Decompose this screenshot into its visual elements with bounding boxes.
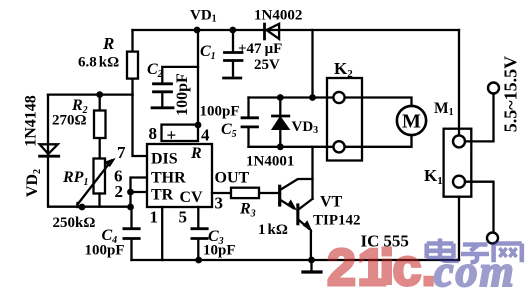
svg-text:100pF: 100pF	[174, 73, 191, 116]
svg-text:5: 5	[179, 208, 188, 227]
relay K2 box	[327, 78, 362, 161]
wire pin7 DIS from R/R2 node down into IC	[133, 95, 148, 156]
node emitter rail dot	[308, 257, 315, 264]
wire K1 box bottom to ground rail	[458, 197, 460, 260]
node THR TR bottom dot	[127, 204, 134, 211]
capacitor C4 100pF	[124, 207, 139, 260]
relay K2 bottom contact circle	[333, 141, 344, 152]
capacitor C5 100pF	[242, 98, 258, 147]
svg-text:R: R	[102, 34, 114, 53]
svg-text:M: M	[402, 111, 421, 133]
wire K1 top contact to supply terminal	[465, 94, 494, 142]
svg-text:1N4002: 1N4002	[254, 8, 302, 24]
wire relay top net	[249, 98, 412, 107]
svg-text:10pF: 10pF	[203, 243, 236, 259]
svg-text:8: 8	[149, 124, 158, 143]
resistor R2 270ohm with leads	[94, 95, 106, 159]
wire K1 bottom contact to supply terminal bottom	[465, 182, 494, 233]
resistor R3 1k	[231, 188, 259, 198]
wire pin4 reset to VD1 rail	[197, 30, 199, 125]
supply terminal top circle	[488, 83, 499, 94]
svg-text:3: 3	[215, 194, 224, 213]
svg-text:+47μF: +47μF	[238, 41, 282, 57]
wire top rail corner down to K1	[458, 30, 460, 135]
svg-text:1N4148: 1N4148	[23, 95, 40, 147]
IC 555 plus box pin 8	[162, 125, 199, 141]
wire relay bottom net	[249, 135, 412, 147]
diode VD2 1N4148	[40, 144, 59, 156]
diode VD3 1N4001	[273, 98, 289, 147]
capacitor C2 100pF	[152, 67, 198, 108]
svg-text:c.: c.	[393, 239, 436, 288]
relay K2 top contact circle	[333, 92, 344, 103]
wire left branch from R bottom to VD2 top corner	[48, 93, 133, 95]
svg-text:+: +	[167, 126, 177, 145]
wire top rail VD1 net	[133, 29, 460, 31]
svg-text:1: 1	[150, 208, 159, 227]
wire collector drop from relay bottom net	[311, 147, 313, 199]
svg-text:100pF: 100pF	[200, 104, 240, 120]
resistor R vertical with leads	[127, 30, 138, 95]
motor M1 circle	[397, 106, 426, 135]
wire OUT pin3 to R3 to base	[212, 192, 278, 194]
potentiometer RP1 250k body	[94, 159, 106, 207]
node VD3 bottom dot	[277, 143, 284, 150]
svg-text:DIS: DIS	[151, 151, 178, 168]
svg-text:250kΩ: 250kΩ	[53, 215, 96, 231]
svg-text:THR: THR	[151, 170, 186, 187]
watermark dianziwang blue glyphs	[427, 239, 522, 263]
svg-text:25V: 25V	[254, 57, 280, 73]
svg-text:4: 4	[201, 126, 210, 145]
svg-text:7: 7	[117, 143, 126, 162]
node pin2 dot	[127, 189, 134, 196]
capacitor C1 47uF electrolytic	[224, 30, 242, 78]
node rail drop dot	[309, 94, 316, 101]
watermark com script blue	[434, 247, 516, 288]
svg-text:1N4001: 1N4001	[246, 154, 294, 170]
svg-text:6.8kΩ: 6.8kΩ	[78, 55, 119, 71]
glyph wang	[494, 244, 522, 263]
switch K1 box	[444, 129, 472, 197]
svg-text:CV: CV	[180, 189, 204, 206]
svg-text:1kΩ: 1kΩ	[258, 222, 288, 238]
ground symbol	[303, 260, 321, 272]
svg-text:VT: VT	[320, 194, 343, 211]
svg-text:2: 2	[115, 182, 124, 201]
svg-text:21: 21	[327, 239, 388, 288]
transistor VT TIP142 darlington Q1	[278, 179, 312, 210]
wire drop from rail to relay net	[311, 30, 313, 98]
wire THR TR junction to IC pins 6 and 2	[131, 178, 148, 208]
IC 555 body U1	[147, 144, 212, 207]
watermark 21ic red	[327, 239, 436, 288]
node VD1 rail dot	[194, 27, 201, 34]
node R2 top dot	[96, 91, 103, 98]
svg-text:TIP142: TIP142	[313, 213, 361, 229]
wire bottom rail ground net	[132, 259, 460, 261]
svg-text:com: com	[434, 247, 516, 288]
switch K1 bottom contact circle	[453, 176, 465, 188]
svg-text:R: R	[190, 145, 202, 162]
switch K1 top contact circle	[453, 135, 465, 147]
svg-text:TR: TR	[151, 187, 174, 204]
svg-text:100pF: 100pF	[85, 243, 125, 259]
node C1 rail dot	[229, 27, 236, 34]
wire pin1 to ground rail	[161, 207, 163, 260]
glyph zi	[461, 245, 489, 263]
node RP1 wiper dot	[79, 204, 86, 211]
glyph dian	[427, 239, 459, 261]
node C3 rail dot	[195, 257, 202, 264]
supply terminal bottom circle	[487, 233, 498, 244]
svg-text:270Ω: 270Ω	[52, 113, 87, 129]
svg-text:OUT: OUT	[215, 170, 250, 187]
svg-text:5.5~15.5V: 5.5~15.5V	[501, 56, 521, 132]
potentiometer RP1 wiper arrow	[78, 159, 115, 207]
capacitor C3 10pF	[192, 229, 207, 260]
wire left vertical through VD2	[48, 95, 131, 207]
node plus box dot	[195, 122, 202, 129]
diode VD1 1N4002 on rail	[265, 24, 280, 39]
transistor VT TIP142 darlington Q2	[296, 199, 312, 260]
wire pin5 lead	[197, 207, 199, 227]
node VD3 top dot	[277, 94, 284, 101]
